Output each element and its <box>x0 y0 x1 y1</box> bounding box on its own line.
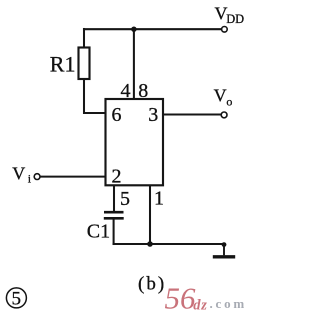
wire Vi terminal to pin 2 <box>40 176 105 178</box>
svg-text:C1: C1 <box>87 221 110 243</box>
svg-text:2: 2 <box>112 165 122 187</box>
svg-text:V: V <box>12 163 25 183</box>
svg-text:3: 3 <box>148 104 158 126</box>
svg-text:(b): (b) <box>138 274 166 295</box>
svg-text:V: V <box>214 86 227 106</box>
wire C1 bottom to rail <box>113 219 115 244</box>
terminal Vi <box>34 174 40 180</box>
node junction VDD rail <box>131 27 136 32</box>
wire R1 top riser <box>83 29 85 48</box>
wire riser to pins 4/8 <box>133 29 135 99</box>
wire pin 5 stub to C1 <box>113 186 115 212</box>
svg-text:5: 5 <box>120 188 130 210</box>
wire pin 1 stub <box>149 186 151 245</box>
terminal VDD <box>222 27 228 33</box>
figure number circled 5 <box>6 288 26 308</box>
svg-text:4: 4 <box>121 80 131 102</box>
wire bottom rail <box>114 243 224 245</box>
svg-text:1: 1 <box>154 188 164 210</box>
terminal Vo <box>221 112 227 118</box>
svg-text:dz: dz <box>193 298 208 314</box>
svg-text:5: 5 <box>12 289 22 310</box>
capacitor C1 <box>104 212 124 218</box>
wire VDD rail <box>84 28 221 30</box>
svg-text:i: i <box>28 172 32 186</box>
svg-text:R1: R1 <box>50 51 76 76</box>
ground <box>213 242 235 257</box>
node junction bottom rail <box>147 241 153 247</box>
svg-text:8: 8 <box>138 80 148 102</box>
svg-text:56: 56 <box>165 281 197 315</box>
wire pin 3 to Vo terminal <box>163 113 221 115</box>
svg-text:DD: DD <box>226 12 244 26</box>
wire R1 bottom to pin 6 <box>84 79 105 113</box>
IC U1 body <box>106 99 164 185</box>
svg-text:6: 6 <box>112 104 122 126</box>
svg-text:o: o <box>226 94 232 108</box>
resistor R1 <box>79 48 90 80</box>
svg-text:.com: .com <box>210 296 248 311</box>
